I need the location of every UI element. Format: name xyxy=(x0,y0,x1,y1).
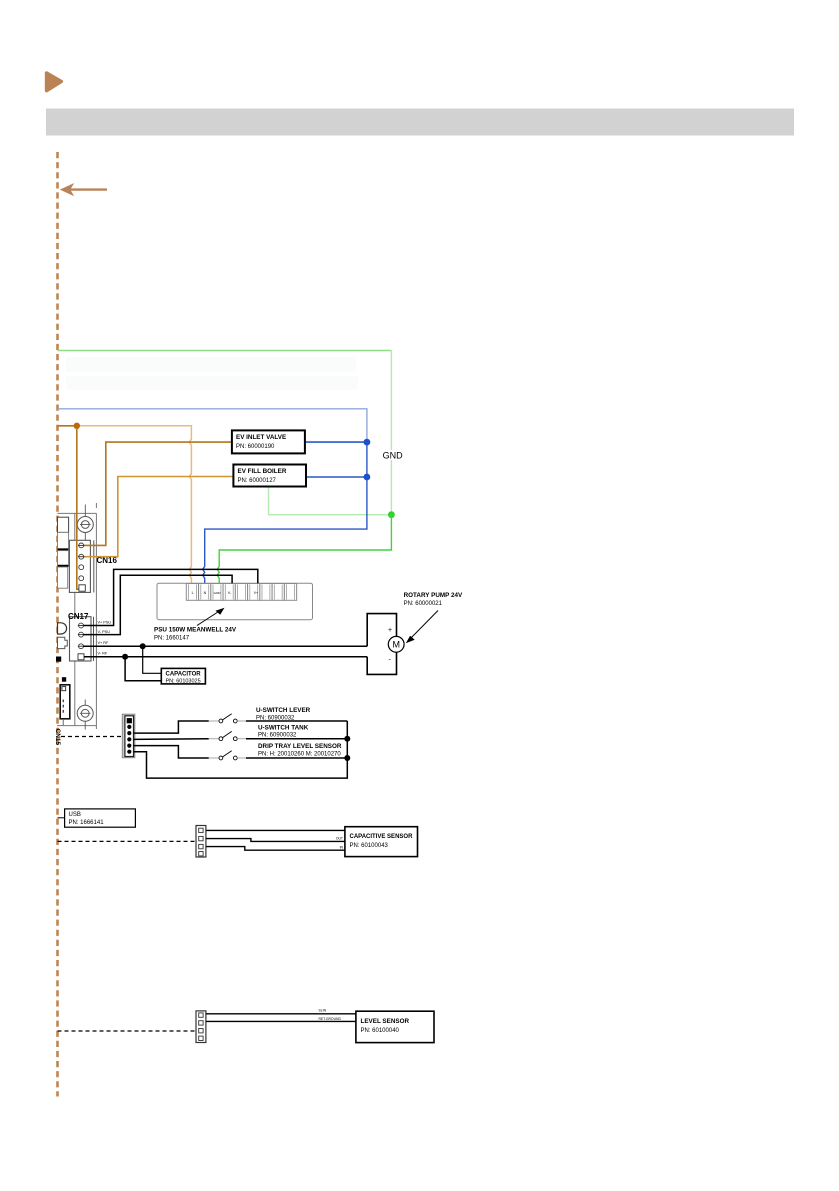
screw hole bottom xyxy=(77,700,93,730)
svg-text:M: M xyxy=(392,640,400,650)
CAPACITIVE SENSOR box xyxy=(345,827,418,857)
svg-text:PN: 1666141: PN: 1666141 xyxy=(69,820,105,826)
label CN15 (rotated) xyxy=(54,729,61,746)
svg-text:PN: H: 20010260 M: 20010270: PN: H: 20010260 M: 20010270 xyxy=(258,751,341,757)
EV FILL BOILER box xyxy=(233,465,306,487)
wire: level sensor RET.GROUND xyxy=(206,1020,356,1022)
label U-SWITCH LEVER xyxy=(256,707,311,722)
wire: level sensor SLIN xyxy=(206,1013,356,1015)
label SLIN xyxy=(319,1009,327,1013)
svg-text:CAPACITIVE SENSOR: CAPACITIVE SENSOR xyxy=(350,834,414,840)
wire: switch 2 to bus xyxy=(246,738,347,740)
switch harness connector body xyxy=(122,714,135,758)
svg-text:OUT: OUT xyxy=(336,837,343,841)
svg-text:CN17: CN17 xyxy=(68,612,89,621)
svg-text:L: L xyxy=(192,591,194,595)
svg-text:GND: GND xyxy=(214,591,222,595)
label IN xyxy=(340,846,344,850)
svg-text:PN: 60100043: PN: 60100043 xyxy=(350,843,389,849)
node: blue junction dot upper xyxy=(364,439,371,446)
svg-text:RET.GROUND: RET.GROUND xyxy=(319,1017,342,1021)
svg-text:LEVEL SENSOR: LEVEL SENSOR xyxy=(361,1018,410,1025)
level sensor connector body xyxy=(196,1011,206,1043)
label CN16 xyxy=(97,556,118,565)
PSU terminal block outline xyxy=(157,583,313,620)
rotary pump label with arrow xyxy=(404,592,463,643)
PSU label with arrow xyxy=(154,608,237,642)
svg-text:V- RF: V- RF xyxy=(98,651,108,655)
node: bus dot switch 3 xyxy=(344,755,350,761)
USB box xyxy=(58,809,136,827)
CN16 pins xyxy=(78,543,85,591)
svg-text:CN15: CN15 xyxy=(54,729,61,746)
connector CN17 body xyxy=(70,617,94,661)
label CN17 xyxy=(68,612,89,621)
wire: capacitor branch from V+ RF xyxy=(143,646,162,673)
wire: dashed link to capacitive sensor connector xyxy=(58,840,197,842)
svg-text:PN: 60103025: PN: 60103025 xyxy=(166,679,201,685)
dashed boundary line (left border) xyxy=(56,152,59,1097)
svg-text:V+ PSU: V+ PSU xyxy=(98,621,112,625)
EV INLET VALVE box xyxy=(232,430,305,453)
connector CN16 body xyxy=(69,540,93,592)
wire: blue lead from EV FILL BOILER xyxy=(306,476,367,478)
svg-text:V- PSU: V- PSU xyxy=(98,630,111,634)
PSU terminal labels xyxy=(192,591,259,595)
svg-text:V+: V+ xyxy=(254,591,259,595)
svg-text:V+ RF: V+ RF xyxy=(98,641,110,645)
svg-text:-: - xyxy=(389,657,392,664)
svg-text:CAPACITOR: CAPACITOR xyxy=(166,672,202,678)
play triangle marker xyxy=(47,73,62,91)
wire: capacitive sensor pin3 (IN) xyxy=(206,847,345,851)
node: junction dot on V+ RF xyxy=(140,643,146,649)
wire: blue lead from EV INLET VALVE xyxy=(305,441,367,443)
wire: V+ RF from CN17 pin3 to pump xyxy=(83,645,367,647)
svg-text:EV FILL BOILER: EV FILL BOILER xyxy=(238,468,287,475)
LEVEL SENSOR box xyxy=(356,1011,434,1042)
svg-text:IN: IN xyxy=(340,846,344,850)
wire: orange CN16 pin2 to EV FILL BOILER xyxy=(84,477,234,557)
wire: orange CN16 pin1 to EV INLET VALVE xyxy=(84,442,232,545)
svg-text:PN: 60000021: PN: 60000021 xyxy=(404,601,443,607)
label OUT xyxy=(336,837,343,841)
svg-text:N: N xyxy=(204,591,207,595)
svg-text:+: + xyxy=(388,627,392,634)
wire: switch 3 to bus xyxy=(246,757,347,759)
svg-text:PN: 60900032: PN: 60900032 xyxy=(258,732,297,738)
gray header bar xyxy=(46,109,794,136)
left-edge component: small black block xyxy=(56,657,61,662)
switch SW3 (DRIP TRAY LEVEL SENSOR) xyxy=(219,751,246,760)
wire: V+ PSU from CN17 pin1 to terminal V+ xyxy=(83,569,257,625)
wire: dark orange from boundary to junction xyxy=(58,425,77,427)
switch SW2 (U-SWITCH TANK) xyxy=(219,731,246,740)
wire: capacitive sensor pin1 xyxy=(206,829,345,831)
left-edge component: diode shape xyxy=(58,623,67,634)
wire: V- RF from CN17 pin4 to pump xyxy=(84,656,367,658)
node: orange junction dot xyxy=(74,423,80,429)
wire: V- PSU from CN17 pin2 to terminal V- xyxy=(83,575,232,634)
CN17 pin labels xyxy=(98,621,112,656)
wire: strong blue vertical and run to PSU N terminal xyxy=(203,442,367,584)
wire: light orange to PSU L terminal xyxy=(77,426,192,584)
connector CN15 body xyxy=(60,685,70,726)
PCB board outline xyxy=(57,503,96,729)
svg-text:U-SWITCH TANK: U-SWITCH TANK xyxy=(258,725,309,732)
label DRIP TRAY LEVEL SENSOR xyxy=(258,743,342,757)
faint ghost text block xyxy=(66,357,358,390)
rotary pump M1 body xyxy=(367,614,404,675)
left-edge component: stub connector xyxy=(58,637,68,648)
wire: switch 1 to bus xyxy=(246,720,347,722)
svg-text:DRIP TRAY LEVEL SENSOR: DRIP TRAY LEVEL SENSOR xyxy=(258,743,342,750)
label U-SWITCH TANK xyxy=(258,725,309,739)
node: junction dot on V- RF xyxy=(122,654,128,660)
svg-text:U-SWITCH LEVER: U-SWITCH LEVER xyxy=(256,707,311,714)
capacitor C box xyxy=(161,668,205,684)
screw hole top xyxy=(77,505,93,545)
svg-text:GND: GND xyxy=(383,451,404,461)
arrow pointing to boundary xyxy=(60,183,107,196)
svg-text:ROTARY PUMP 24V: ROTARY PUMP 24V xyxy=(404,592,463,599)
svg-text:USB: USB xyxy=(69,812,81,818)
wire: green GND net horizontal (light) xyxy=(58,351,392,515)
svg-text:PN: 60000190: PN: 60000190 xyxy=(236,444,275,450)
wire: switch 2 feed xyxy=(134,738,220,741)
svg-text:PN: 1660147: PN: 1660147 xyxy=(154,636,190,642)
svg-text:PN: 60100040: PN: 60100040 xyxy=(361,1028,400,1034)
wire: bright green to PSU GND terminal xyxy=(217,515,391,584)
capacitive sensor connector body xyxy=(196,826,206,858)
CN17 pins xyxy=(78,623,84,660)
svg-text:PSU 150W MEANWELL 24V: PSU 150W MEANWELL 24V xyxy=(154,627,237,634)
wire: switch 1 feed xyxy=(134,721,220,733)
svg-text:EV INLET VALVE: EV INLET VALVE xyxy=(236,434,286,441)
wire: pale green branch from EV FILL BOILER xyxy=(269,487,392,515)
wire: capacitive sensor pin2 (OUT) xyxy=(206,839,345,842)
PSU terminal cells xyxy=(186,584,296,601)
svg-text:PN: 60900032: PN: 60900032 xyxy=(256,716,295,722)
wire: dashed link to switch connector xyxy=(61,736,122,738)
node: bus dot switch 2 xyxy=(344,736,350,742)
svg-text:PN: 60000127: PN: 60000127 xyxy=(238,478,277,484)
svg-text:SLIN: SLIN xyxy=(319,1009,327,1013)
wire: switch 3 feed xyxy=(134,746,220,758)
label RET.GROUND xyxy=(319,1017,342,1021)
left-edge component: pad square xyxy=(62,677,66,682)
node: blue junction dot lower xyxy=(364,474,371,481)
wire: blue net horizontal (light) xyxy=(58,409,367,442)
wire: switch return bus xyxy=(134,721,348,778)
label GND xyxy=(381,450,403,461)
node: green junction dot xyxy=(388,511,395,518)
wire: dashed link to level sensor connector xyxy=(58,1030,197,1032)
wire: capacitor branch from V- RF xyxy=(125,657,161,681)
wire: dark orange vertical to CN16 square pin xyxy=(77,426,80,589)
edge connector stack on PCB left xyxy=(58,517,69,588)
switch SW1 (U-SWITCH LEVER) xyxy=(219,714,246,723)
